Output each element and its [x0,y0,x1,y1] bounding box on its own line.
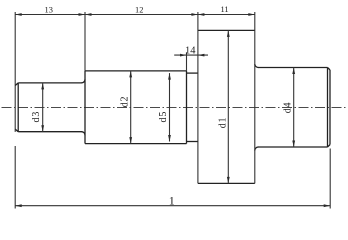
dimension 12 line [85,14,198,16]
extension line bottom-right for overall dim [329,149,331,209]
arrow d1 top [227,30,230,37]
arrow d3 top [41,83,44,90]
extension line + shoulder face x=84.5 [84,12,86,71]
arrowheads [15,13,330,207]
dimension d2 line [130,71,132,144]
fillet at d1/d4 shoulder bottom [255,147,258,151]
svg-text:d5: d5 [158,111,169,123]
arrow overall right [324,204,331,207]
fillet at d3/d2 shoulder bottom [82,132,86,136]
dimension overall length line [15,205,330,207]
arrow 12 right [191,13,198,16]
arrow d4 top [292,68,295,75]
dimension lines [15,15,330,206]
extension line for dim 14 at x=186 [186,52,188,71]
arrow d5 top [168,73,171,80]
extension line + disc left edge x=197.4 [197,12,199,183]
arrow 11 left [198,13,205,16]
arrow d2 bottom [129,137,132,144]
svg-text:1: 1 [169,194,175,208]
svg-text:d1: d1 [218,117,229,129]
arrow d2 top [129,71,132,78]
svg-text:d2: d2 [120,96,131,108]
extension line + end face, left x=14.7 [14,12,16,132]
fillet at d1/d4 shoulder top [255,64,258,68]
shaft section d2 outline [85,71,187,144]
shaft section d5 ring outline [187,71,198,144]
svg-text:12: 12 [135,6,143,15]
arrow d4 bottom [292,141,295,148]
arrow d1 bottom [227,177,230,184]
svg-text:14: 14 [185,45,196,56]
arrow 13 left [15,13,22,16]
arrow 14 left (outside) [180,54,187,57]
arrow 11 right [248,13,255,16]
arrow d5 bottom [168,135,171,142]
arrow 14 right (outside) [198,54,205,57]
dimension d5 line [169,73,171,141]
arrow 12 left [85,13,92,16]
dimension 14 line [174,54,208,56]
shaft section d4 outline [258,68,330,148]
dimension 11 line [198,14,255,16]
centerline [2,107,348,109]
shaft section d3 outline (left stub) [15,83,82,132]
extension line + disc right edge x=254.3 [254,12,256,183]
arrow d3 bottom [41,125,44,132]
svg-text:13: 13 [45,5,53,14]
dimension d1 line [227,30,229,183]
dimension d4 line [293,68,295,148]
fillet at d3/d2 shoulder top [82,79,86,83]
dimension texts [45,5,229,208]
extension line bottom-left for overall dim [14,146,16,209]
dimension 13 line [15,14,85,16]
arrow overall left [15,204,22,207]
arrow 13 right [79,13,86,16]
svg-text:11: 11 [220,5,228,14]
svg-text:d4: d4 [282,102,293,114]
svg-text:d3: d3 [31,111,42,123]
dimension d3 line [42,83,44,132]
shaft disc d1 outline [198,30,255,183]
